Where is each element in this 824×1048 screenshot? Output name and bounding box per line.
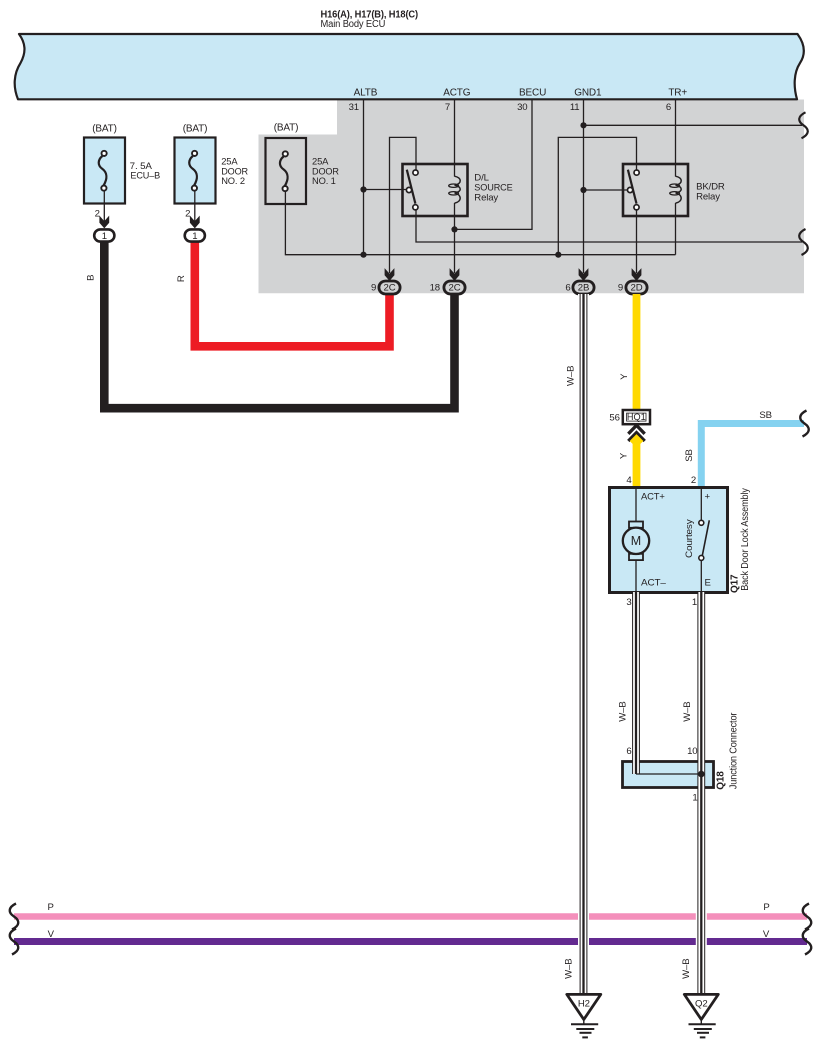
chevron pair below HQ1	[629, 433, 645, 441]
svg-text:V: V	[763, 929, 770, 940]
wire D/L coil bottom down to 2C	[454, 203, 456, 273]
wire GND1 pin 11 vertical	[583, 100, 585, 273]
Q18 internal wire	[636, 773, 701, 775]
relay D/L switch	[407, 170, 416, 204]
svg-text:H2: H2	[578, 998, 590, 1009]
svg-text:9: 9	[618, 283, 623, 294]
svg-text:Back Door Lock Assembly: Back Door Lock Assembly	[740, 488, 751, 591]
wire BK/DR bottom contact down to 2D	[636, 210, 638, 274]
wire W-B from 2B to ground H2	[578, 294, 589, 994]
svg-text:4: 4	[626, 475, 632, 486]
svg-text:2: 2	[95, 208, 100, 219]
node ALTB bottom junction	[360, 252, 366, 258]
break squiggle V right	[803, 929, 812, 955]
ground Q2 triangle	[684, 994, 718, 1019]
wire D/L top contact loop	[390, 137, 417, 273]
svg-text:6: 6	[626, 746, 631, 757]
wire GND1 to BK/DR relay contact	[584, 189, 631, 191]
svg-text:30: 30	[517, 102, 527, 113]
svg-text:Relay: Relay	[696, 192, 720, 203]
wire D/L bottom contact to right edge	[416, 210, 802, 243]
fuse F3 symbol	[280, 157, 288, 186]
connector oval 2B pin 6	[573, 281, 594, 294]
svg-text:1: 1	[692, 597, 697, 608]
svg-text:NO. 2: NO. 2	[221, 176, 245, 187]
svg-text:9: 9	[371, 283, 376, 294]
fuse F2 25A DOOR NO.2 box	[175, 138, 216, 204]
svg-text:Y: Y	[619, 452, 630, 459]
connector oval 1 of fuse F2	[185, 229, 205, 241]
wire BK/DR coil bottom to bus	[675, 203, 677, 255]
svg-text:R: R	[176, 275, 187, 282]
node Q18 junction	[698, 771, 705, 778]
svg-text:1: 1	[102, 231, 107, 242]
Q17 internal wire pin 2 to switch	[700, 489, 702, 521]
relay D/L coil	[455, 176, 461, 203]
svg-text:2D: 2D	[631, 283, 643, 294]
Q17 Back Door Lock Assembly box	[610, 488, 728, 593]
gray harness background region	[259, 100, 805, 294]
svg-text:Junction Connector: Junction Connector	[728, 712, 739, 789]
break squiggle SB wire right end	[800, 411, 809, 437]
wire Y (yellow) from 2D to HQ1	[633, 294, 641, 411]
break squiggle right edge GND1 line	[799, 112, 808, 138]
wire ACTG pin 7 to coil	[454, 100, 456, 177]
svg-text:P: P	[763, 902, 769, 913]
svg-text:Q18: Q18	[715, 771, 726, 790]
ground H2 earth bars	[583, 1020, 585, 1025]
svg-text:6: 6	[565, 283, 570, 294]
break squiggle P left	[10, 904, 19, 930]
svg-text:SB: SB	[759, 410, 772, 421]
wire W-B Q17 pin 1 through Q18 to ground Q2	[696, 592, 707, 994]
svg-text:2: 2	[185, 208, 190, 219]
svg-text:W–B: W–B	[564, 959, 575, 979]
svg-text:E: E	[705, 578, 711, 589]
node bus junction	[555, 252, 561, 258]
svg-text:(BAT): (BAT)	[274, 123, 299, 134]
svg-text:3: 3	[626, 597, 631, 608]
svg-text:B: B	[86, 275, 97, 281]
svg-text:V: V	[48, 929, 55, 940]
svg-text:2C: 2C	[449, 283, 461, 294]
Q17 internal wire switch to pin 1	[700, 560, 702, 591]
svg-text:ACT+: ACT+	[641, 492, 665, 503]
svg-text:(BAT): (BAT)	[183, 124, 208, 135]
harness arrow into 6(2B)	[579, 268, 589, 281]
svg-text:ACTG: ACTG	[443, 88, 471, 99]
relay D/L SOURCE box	[403, 164, 468, 216]
svg-text:56: 56	[609, 413, 619, 424]
fuse F1 symbol	[99, 156, 107, 185]
svg-text:1: 1	[692, 793, 697, 804]
Q17 internal wire motor to pin 3	[635, 560, 637, 591]
svg-text:W–B: W–B	[682, 701, 693, 721]
connector oval 2C pin 18	[444, 281, 465, 294]
wire ALTB pin 31 vertical	[363, 100, 365, 255]
ground Q2 earth bars	[700, 1020, 702, 1025]
harness arrow into 9(2D)	[632, 268, 642, 281]
wire BK/DR top contact loop	[558, 137, 636, 254]
svg-text:BECU: BECU	[519, 88, 546, 99]
harness arrow into 18(2C)	[450, 268, 460, 281]
wire Y (yellow) from chevron to Q17 pin 4	[633, 438, 641, 490]
svg-text:+: +	[705, 492, 711, 503]
break squiggle right edge relay line	[799, 229, 808, 255]
svg-text:7: 7	[445, 102, 450, 113]
wire BECU pin 30 vertical	[455, 100, 533, 229]
svg-text:ECU–B: ECU–B	[130, 171, 160, 182]
wire ALTB to D/L relay contact	[364, 189, 410, 191]
fuse F1 harness arrow	[99, 216, 109, 229]
node GND1 upper junction	[580, 122, 586, 128]
relay BK/DR coil	[676, 176, 682, 203]
wire V (violet) horizontal	[14, 938, 807, 945]
connector oval 1 of fuse F1	[94, 229, 114, 241]
break squiggle V left	[10, 929, 19, 955]
fuse F1 7.5A ECU-B box	[84, 138, 125, 204]
wire P (pink) horizontal	[14, 913, 807, 920]
svg-text:Courtesy: Courtesy	[684, 519, 695, 558]
svg-text:P: P	[47, 902, 53, 913]
svg-text:M: M	[631, 534, 641, 548]
svg-text:1: 1	[192, 231, 197, 242]
node D/L coil junction	[451, 226, 457, 232]
wire TR+ pin 6 to coil	[675, 100, 677, 177]
svg-text:HQ1: HQ1	[627, 412, 646, 422]
break squiggle P right	[803, 904, 812, 930]
wire fuse F3 to battery bus	[285, 192, 675, 255]
node GND1 relay junction	[580, 187, 586, 193]
svg-text:GND1: GND1	[574, 88, 602, 99]
svg-text:SB: SB	[684, 449, 695, 462]
fuse F1 pin 2 wire	[103, 191, 105, 222]
svg-text:2: 2	[691, 475, 696, 486]
svg-text:W–B: W–B	[566, 366, 577, 386]
svg-text:W–B: W–B	[681, 959, 692, 979]
connector oval 2C pin 9	[379, 281, 400, 294]
svg-text:6: 6	[666, 102, 671, 113]
Q17 internal wire pin4 to motor	[635, 489, 637, 522]
svg-text:(BAT): (BAT)	[92, 124, 117, 135]
harness arrow into 9(2C)	[385, 268, 395, 281]
svg-text:18: 18	[430, 283, 440, 294]
svg-text:2C: 2C	[384, 283, 396, 294]
relay BK/DR switch	[628, 170, 637, 204]
ground H2 triangle	[567, 994, 601, 1019]
svg-text:11: 11	[570, 102, 580, 113]
svg-text:10: 10	[687, 746, 697, 757]
junction connector Q18 box	[623, 762, 714, 788]
fuse F2 symbol	[189, 156, 197, 185]
svg-text:Relay: Relay	[474, 192, 498, 203]
fuse F2 pin 2 wire	[194, 191, 196, 222]
wire GND1 to right edge	[584, 124, 803, 126]
relay BK/DR box	[623, 164, 688, 216]
svg-text:Y: Y	[619, 373, 630, 380]
svg-text:Q2: Q2	[695, 998, 708, 1009]
wire B (black) from fuse F1 to 18(2C)	[104, 236, 454, 408]
connector oval 2D pin 9	[626, 281, 647, 294]
motor M of Q17	[629, 522, 643, 528]
svg-text:2B: 2B	[578, 283, 589, 294]
svg-text:Q17: Q17	[729, 574, 740, 593]
svg-text:31: 31	[349, 102, 359, 113]
svg-text:ACT–: ACT–	[641, 578, 667, 589]
wire W-B Q17 pin 3 to Q18 pin 6	[632, 592, 640, 774]
courtesy switch of Q17	[702, 520, 709, 555]
svg-text:TR+: TR+	[668, 88, 687, 99]
node ALTB junction	[360, 186, 366, 192]
wire SB (sky blue) from right edge to Q17 pin 2	[701, 424, 804, 489]
fuse F2 harness arrow	[190, 216, 200, 229]
svg-text:W–B: W–B	[618, 701, 629, 721]
wire R (red) from fuse F2 to 9(2C)	[195, 236, 390, 346]
svg-text:ALTB: ALTB	[354, 88, 378, 99]
junction connector HQ1	[623, 410, 650, 424]
Main Body ECU block (blue band with torn edges)	[15, 34, 804, 99]
svg-text:Main Body ECU: Main Body ECU	[321, 19, 386, 30]
fuse F3 25A DOOR NO.1 box	[266, 138, 307, 204]
svg-text:NO. 1: NO. 1	[312, 176, 336, 187]
